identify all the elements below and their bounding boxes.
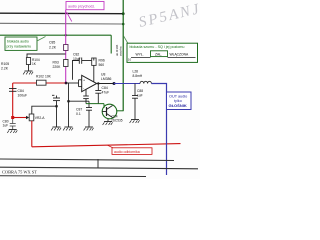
frame title block line A <box>0 159 174 161</box>
wire pot top lead <box>32 106 57 114</box>
capacitor C85 value label <box>49 41 57 50</box>
svg-text:C85: C85 <box>49 41 55 45</box>
label audio przychodzace box <box>66 2 104 10</box>
wire magenta callout diagonal <box>67 12 72 22</box>
op-amp U8 label <box>101 73 111 81</box>
label blokada szumu box <box>127 43 198 62</box>
svg-text:przy nadawaniu: przy nadawaniu <box>7 45 32 49</box>
wire green vertical net <box>122 0 124 111</box>
node junction dot <box>55 105 58 108</box>
svg-text:OUT audio: OUT audio <box>169 95 187 99</box>
svg-text:10K: 10K <box>45 75 52 79</box>
squelch waveform low right <box>168 57 196 59</box>
capacitor C88 wire down <box>132 84 138 120</box>
capacitor C84b output coupling <box>95 84 101 104</box>
wire emitter to ground <box>107 119 109 122</box>
ground under C87 <box>84 127 94 130</box>
resistor R102 body <box>37 80 47 85</box>
wire transistor base feed <box>86 103 104 105</box>
svg-text:2SC535: 2SC535 <box>111 118 123 122</box>
wire op-amp plus input <box>79 79 82 81</box>
svg-text:1uF: 1uF <box>3 124 9 128</box>
svg-text:47uF: 47uF <box>102 90 110 94</box>
svg-text:blokada audio: blokada audio <box>7 40 29 44</box>
node junction on green line at bus 2 <box>122 23 125 26</box>
wire green callout from blokada box <box>37 37 46 42</box>
wire magenta vertical <box>65 10 67 83</box>
svg-text:WŁĄCZONA: WŁĄCZONA <box>170 53 189 57</box>
svg-text:C84: C84 <box>18 89 24 93</box>
svg-text:R102: R102 <box>36 75 44 79</box>
capacitor C87 label <box>76 108 82 116</box>
transistor Q24 label <box>111 115 123 123</box>
pot wiper arrow <box>26 116 29 120</box>
svg-text:ZAŁ.: ZAŁ. <box>155 52 162 56</box>
svg-text:GŁOŚNIK: GŁOŚNIK <box>169 103 187 108</box>
wire blue after coil <box>151 84 166 176</box>
wire op-amp minus input <box>79 86 82 88</box>
label blokada audio box <box>5 37 37 50</box>
svg-text:WYŁ.: WYŁ. <box>136 53 144 57</box>
capacitor C84b label <box>102 86 110 94</box>
wire feedback down from input node <box>68 83 70 101</box>
svg-text:1uF: 1uF <box>137 93 143 97</box>
resistor R105 label <box>1 62 9 71</box>
potentiometer VR2-A body <box>29 114 34 121</box>
wire junction to ground <box>56 106 58 127</box>
svg-text:blokada szumu - SQ i jej pozio: blokada szumu - SQ i jej poziomu <box>130 45 185 49</box>
wire to resistor R104 <box>27 54 66 58</box>
svg-text:220K: 220K <box>53 65 62 69</box>
ground under C80 <box>7 130 17 133</box>
wire red audio input bus <box>13 82 66 84</box>
squelch waveform low left <box>131 57 151 59</box>
transistor Q24 body <box>102 104 117 119</box>
ground under feedback <box>63 127 73 130</box>
capacitor C80 plates <box>10 119 16 130</box>
svg-text:R93: R93 <box>53 61 59 65</box>
wire op-amp output <box>97 83 114 85</box>
resistor R104 label <box>32 58 40 66</box>
wire red to pot arrow <box>13 117 26 119</box>
node red junction at pot <box>11 116 14 119</box>
svg-text:100uF: 100uF <box>18 94 28 98</box>
capacitor C82 label <box>73 53 81 61</box>
inductor L28 label <box>133 70 143 78</box>
svg-text:audio odbiornika: audio odbiornika <box>114 150 140 154</box>
capacitor C86 plates <box>83 96 89 99</box>
wire collector to green net <box>117 110 124 112</box>
wire bus line 2 <box>0 22 123 25</box>
squelch ZAL box <box>151 51 168 57</box>
wire base feed into transistor <box>103 104 105 108</box>
wire feedback to ground <box>68 101 70 127</box>
capacitor C88 label <box>137 89 143 97</box>
svg-text:LM386: LM386 <box>101 77 111 81</box>
node green-magenta crossing <box>65 34 67 36</box>
resistor R93 body on magenta line <box>64 60 68 67</box>
capacitor C87 plates <box>86 101 92 127</box>
wire green horizontal net <box>0 34 111 36</box>
frame title block line C <box>0 175 146 178</box>
capacitor C84 label <box>18 89 28 98</box>
svg-text:COBRA 75 WX ST: COBRA 75 WX ST <box>2 169 37 174</box>
resistor R102 label <box>36 75 52 79</box>
capacitor C82 loop top wire <box>73 61 94 80</box>
label audio odbiornika callout <box>108 145 115 148</box>
wire red vertical to volume pot <box>12 83 14 118</box>
node magenta-red junction <box>65 82 68 85</box>
svg-text:0.1: 0.1 <box>76 112 81 116</box>
op-amp U8 body <box>82 75 97 91</box>
wire to op-amp input <box>66 82 79 84</box>
label audio odbiornika box <box>112 148 152 155</box>
resistor R96 body <box>92 58 96 65</box>
node blue junction <box>113 82 116 85</box>
frame title block divider <box>97 159 99 168</box>
wire R96 down to op-amp <box>93 65 95 81</box>
wire red bottom bus <box>32 144 181 147</box>
resistor R96 label <box>99 59 105 67</box>
node feedback junction <box>67 100 70 103</box>
svg-text:560: 560 <box>99 63 105 67</box>
svg-text:VR2-A: VR2-A <box>35 116 46 120</box>
capacitor C83 plates above junction <box>52 95 60 106</box>
svg-text:2.2K: 2.2K <box>49 46 57 50</box>
label OUT audio box <box>167 92 192 110</box>
capacitor C82 plates <box>79 58 81 64</box>
wire R96 top lead <box>93 58 95 61</box>
resistor R93 label <box>53 61 62 70</box>
wire C86 to base feed <box>85 99 87 104</box>
capacitor C86 pin from op-amp <box>85 89 87 96</box>
svg-text:2.2K: 2.2K <box>1 67 9 71</box>
wire blue speaker line <box>114 83 140 85</box>
capacitor C84 plates on red line <box>9 89 17 92</box>
inductor L28 coil <box>140 81 151 83</box>
ground under transistor <box>103 122 113 125</box>
capacitor C85 body on magenta line <box>64 45 68 51</box>
wire R104 to ground <box>28 65 30 72</box>
op-amp plus minus marks <box>83 79 85 91</box>
wire red pot wiper down <box>31 121 33 147</box>
ground under R104 <box>23 71 33 74</box>
node junction on green line at bus 1 <box>122 12 125 15</box>
wire green vertical stub <box>110 35 112 53</box>
resistor R104 body <box>26 58 30 65</box>
frame title block line B <box>0 167 198 169</box>
wire feedback horizontal <box>69 100 90 102</box>
svg-text:R105: R105 <box>1 62 9 66</box>
wire bus line 1 <box>0 12 123 15</box>
svg-text:8.8mH: 8.8mH <box>133 74 143 78</box>
node output junction <box>97 82 99 84</box>
svg-text:10: 10 <box>128 58 132 62</box>
ground under C88 <box>130 120 140 123</box>
wire green callout diagonal to squelch box <box>124 36 128 44</box>
ground below junction <box>51 127 61 130</box>
wire input jog <box>78 80 80 87</box>
svg-text:zworka: zworka <box>119 46 123 56</box>
capacitor C80 label <box>3 120 9 128</box>
svg-text:audio przychodz.: audio przychodz. <box>68 5 95 9</box>
svg-text:+: + <box>83 79 85 83</box>
